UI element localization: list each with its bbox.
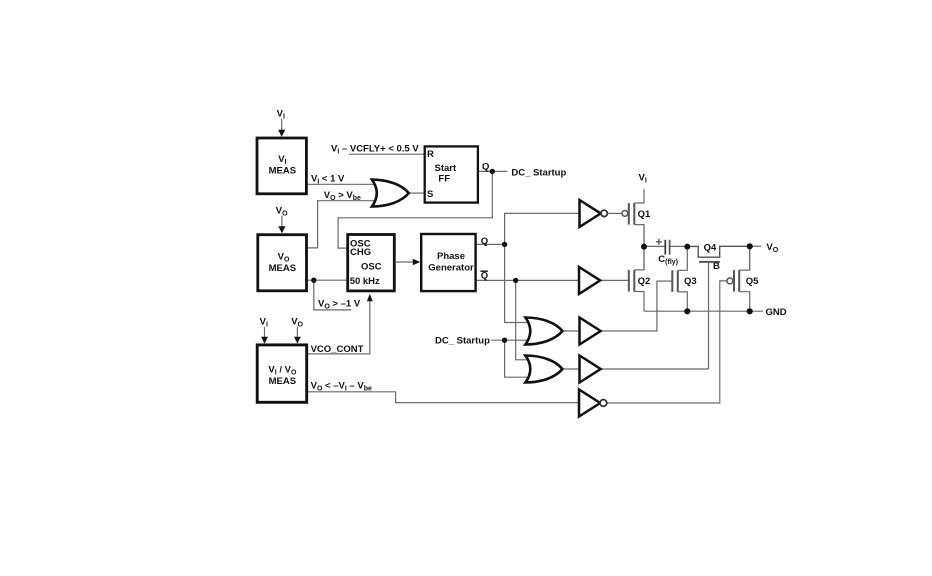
wire Q output of Phase Generator (477, 243, 505, 245)
svg-text:MEAS: MEAS (269, 376, 296, 387)
wire GND rail (644, 310, 763, 312)
wire buffer U4 output up to Q4 gate node B (601, 368, 709, 370)
svg-text:VI – VCFLY+ < 0.5 V: VI – VCFLY+ < 0.5 V (331, 144, 419, 156)
junction node GND at Q3 (684, 308, 690, 314)
svg-text:DC_ Startup: DC_ Startup (511, 168, 566, 179)
svg-text:FF: FF (438, 173, 450, 184)
block VI MEAS (257, 138, 306, 194)
svg-text:Generator: Generator (428, 263, 474, 274)
transistor Q4 (horizontal, VO switch) (687, 243, 749, 369)
svg-text:CHG: CHG (350, 247, 371, 258)
wire VO>Vbe from VO MEAS to OR gate G1 (307, 201, 380, 248)
wire inverter U5 output up to Q5 gate bubble (607, 281, 727, 403)
buffer U3 (drives Q3 gate) (580, 318, 601, 345)
svg-text:Q: Q (481, 236, 488, 247)
wire VCO_CONT from VI/VO MEAS to OSC bottom (307, 301, 370, 354)
OR gate G3 (drives buffer U4) (525, 356, 562, 383)
buffer U2 (drives Q2 gate) (579, 267, 600, 294)
junction node on Q line (502, 242, 507, 247)
junction node VO (747, 243, 753, 249)
svg-text:DC_ Startup: DC_ Startup (435, 335, 490, 346)
junction node flying cap positive (641, 244, 647, 250)
svg-text:MEAS: MEAS (269, 166, 296, 177)
input arrow VCO_CONT into OSC bottom (367, 294, 373, 302)
block VO MEAS (258, 235, 307, 291)
svg-text:Q3: Q3 (684, 276, 697, 287)
wire buffer U3 output up to Q3 gate (601, 281, 673, 331)
transistor Q1 (PMOS, VI to flying cap) (622, 189, 651, 246)
buffer U4 (drives Q4 gate) (580, 356, 601, 383)
wire buffer U2 output to Q2 gate (600, 279, 628, 281)
svg-text:MEAS: MEAS (269, 263, 296, 274)
svg-text:GND: GND (766, 307, 787, 318)
wire buffer U1 output to Q1 gate bubble (607, 212, 622, 214)
svg-text:S: S (427, 189, 433, 200)
block OSC 50 kHz (348, 235, 395, 291)
wire OR gate G2 output to buffer U3 (562, 330, 579, 332)
wire R input condition line into Start FF (349, 153, 425, 155)
wire OR gate G3 output to buffer U4 (562, 368, 579, 370)
block Start FF (425, 146, 478, 202)
junction node on Qbar line (513, 278, 518, 283)
block Phase Generator (421, 234, 475, 291)
wire DC_ Startup branch to OR gate G3 lower input (505, 340, 527, 377)
svg-text:R: R (427, 149, 434, 160)
wire DC_ Startup net to OR gate G2 lower input (491, 339, 527, 341)
svg-text:VI < 1 V: VI < 1 V (311, 174, 345, 186)
transistor Q3 (672, 246, 696, 311)
input arrow VO into VI/VO MEAS (291, 316, 303, 343)
svg-text:B: B (713, 261, 720, 272)
wire feedback from Q node to OSC CHG input (338, 171, 492, 248)
svg-text:Q1: Q1 (638, 209, 651, 220)
wire OR gate G1 output to S input of Start FF (409, 192, 425, 194)
svg-text:Q5: Q5 (746, 276, 759, 287)
svg-text:Phase: Phase (437, 251, 465, 262)
transistor Q5 (PMOS to GND) (727, 246, 759, 311)
input arrow VI into VI MEAS (277, 109, 286, 137)
input arrow VO into VO MEAS (276, 206, 288, 234)
wire Q branch down to OR gate G2 top input (505, 244, 527, 322)
OR gate G1 (S input of Start FF) (372, 180, 409, 207)
junction node on DC_ Startup line (502, 338, 507, 343)
junction node Q of Start FF (490, 169, 495, 174)
input arrow VI into VI/VO MEAS (260, 316, 268, 343)
junction node flying cap negative (684, 244, 690, 250)
svg-text:50 kHz: 50 kHz (350, 276, 380, 287)
wire Q branch up to buffer U1 input (505, 213, 580, 244)
wire Qbar branch down to OR gate G3 top input (516, 280, 527, 359)
wire Q output of Start FF to DC_ Startup label (478, 170, 507, 172)
block VI/VO MEAS (257, 345, 307, 402)
pin label Qbar of Phase Generator (480, 271, 488, 282)
wire VO<-VI-Vbe from VI/VO MEAS to inverter U5 input (307, 392, 579, 403)
OR gate G2 (drives buffer U3) (525, 318, 562, 345)
svg-text:VCO_CONT: VCO_CONT (311, 344, 364, 355)
svg-text:Q4: Q4 (704, 243, 717, 254)
junction node GND at Q5 (747, 308, 753, 314)
svg-text:Q: Q (481, 271, 488, 282)
arrow OSC output to Phase Generator (395, 259, 420, 266)
svg-text:Q2: Q2 (638, 276, 651, 287)
inverter U1 (drives Q1 gate) (580, 200, 608, 227)
capacitor C(fly) (646, 239, 687, 266)
wire VI<1V from VI MEAS to OR gate G1 (307, 183, 380, 185)
wire VO node stub to label (750, 245, 762, 247)
svg-text:OSC: OSC (361, 262, 382, 273)
transistor Q2 (629, 246, 650, 311)
wire stub VO>-1V label (314, 280, 352, 310)
wire node between Q1 source and Q2 drain (643, 225, 645, 270)
svg-text:Q: Q (482, 162, 489, 173)
wire Qbar output of Phase Generator to buffer U2 (477, 279, 580, 281)
inverter U5 (drives Q5 gate) (579, 390, 607, 417)
wire VO MEAS output to OSC 50kHz input (307, 279, 348, 281)
wire VO node down to Q5 upper lead (749, 246, 751, 270)
junction node VO MEAS output (311, 278, 316, 283)
